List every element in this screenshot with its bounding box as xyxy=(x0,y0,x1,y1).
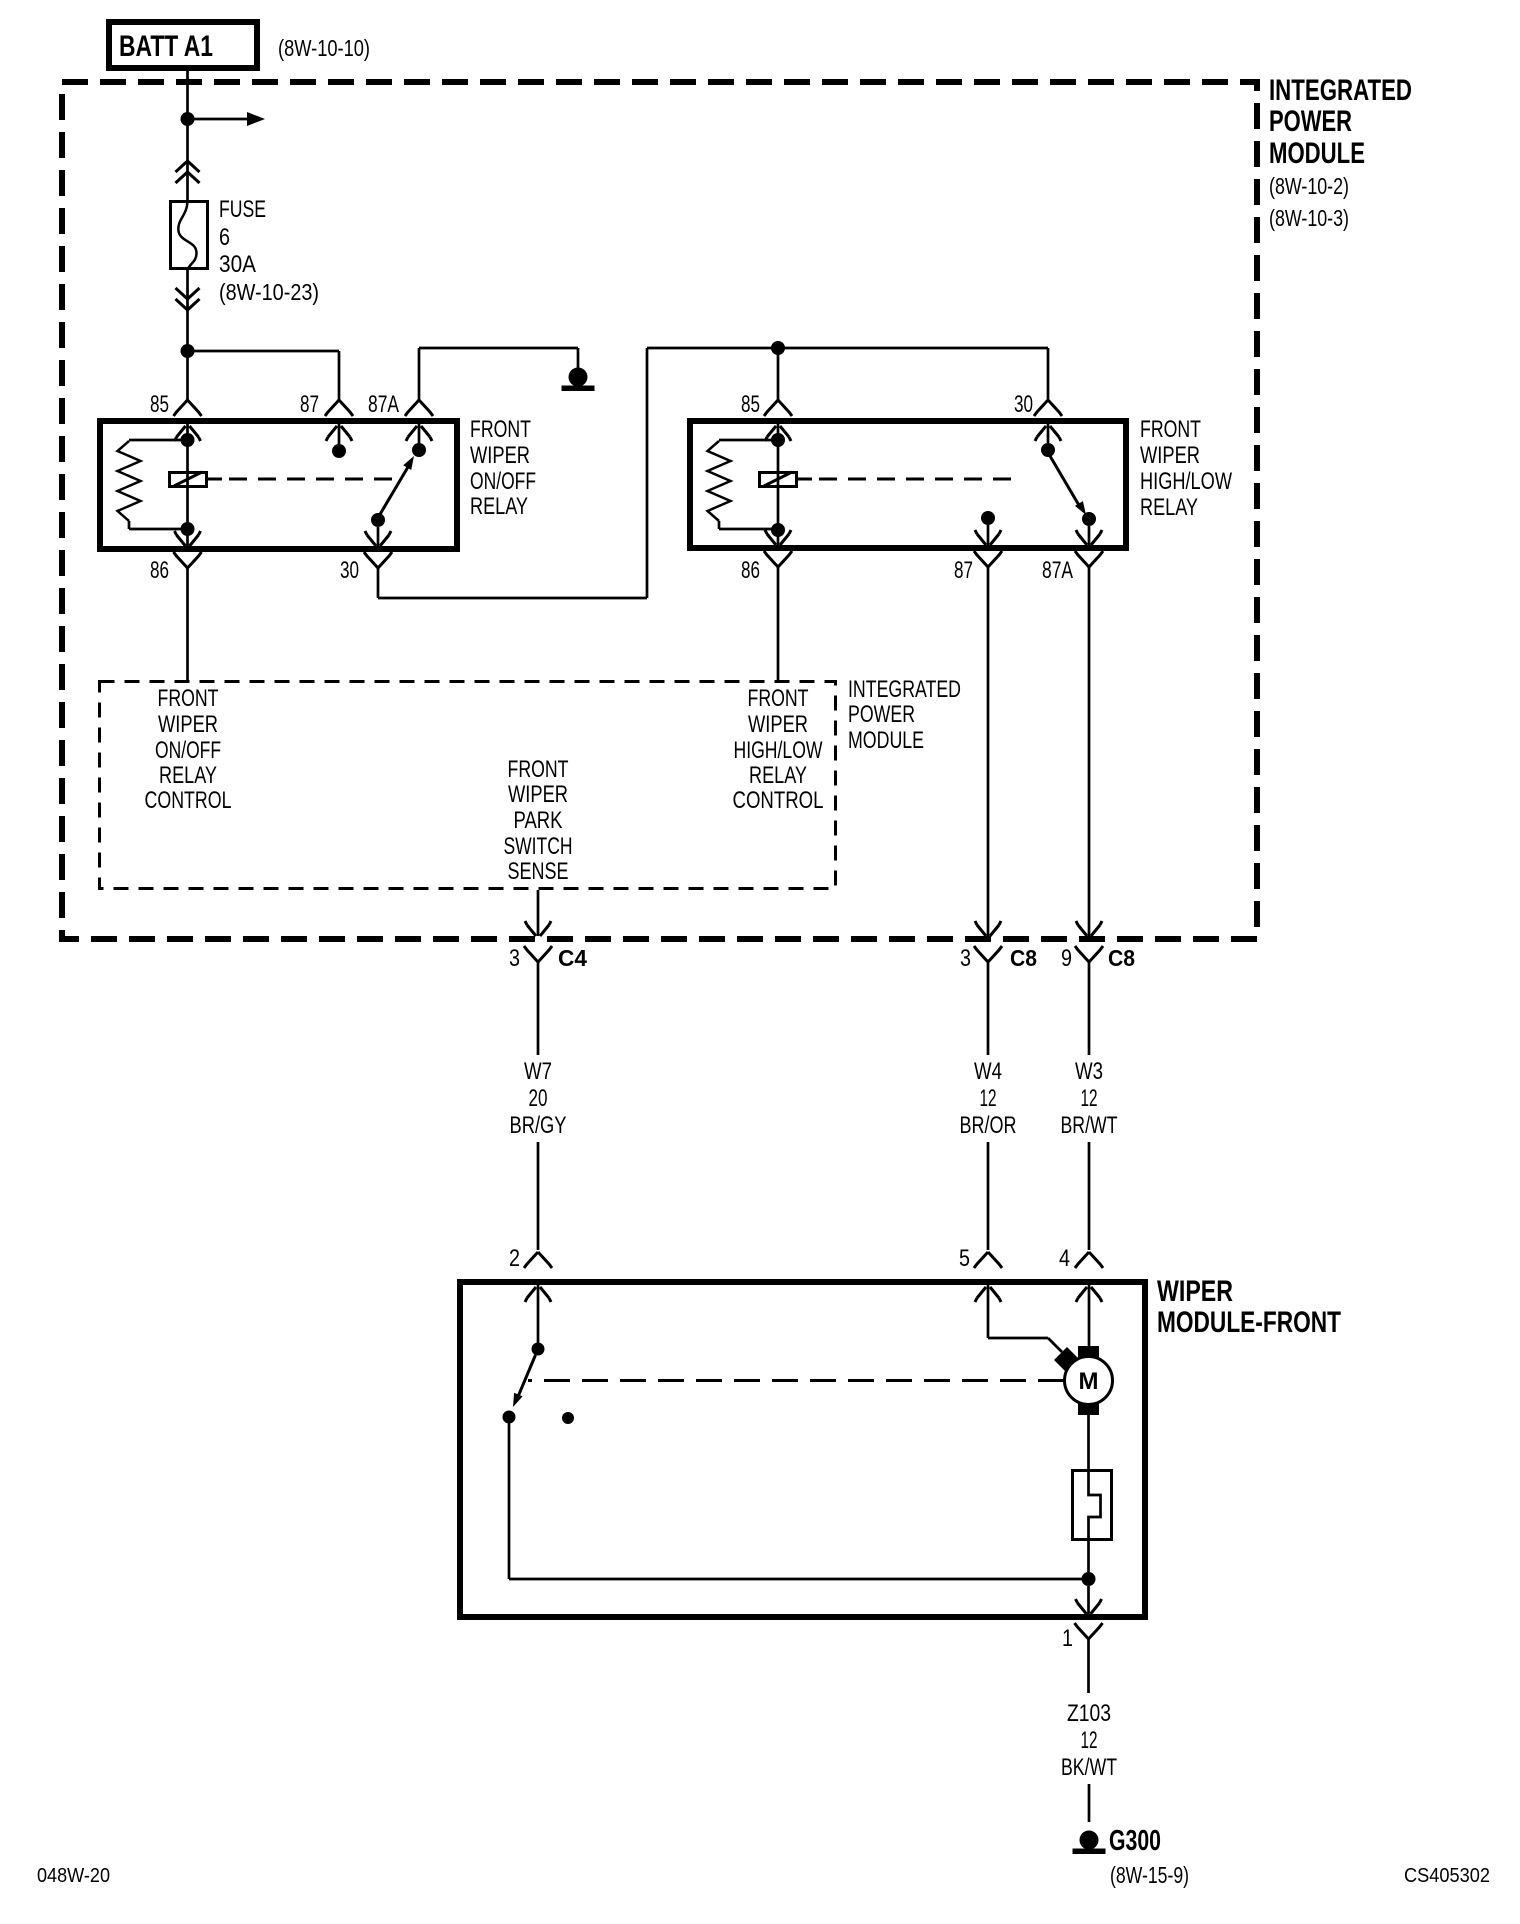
svg-text:2: 2 xyxy=(509,1245,520,1272)
svg-text:CONTROL: CONTROL xyxy=(733,787,824,814)
svg-text:048W-20: 048W-20 xyxy=(37,1865,110,1887)
svg-text:WIPER: WIPER xyxy=(470,442,530,469)
svg-text:W3: W3 xyxy=(1075,1058,1103,1085)
wire: relay1 pin 87A to ground splice xyxy=(418,348,421,400)
svg-text:FRONT: FRONT xyxy=(470,416,531,443)
svg-text:86: 86 xyxy=(150,557,169,584)
park switch xyxy=(1073,1471,1112,1540)
wire switch low contact to ground junction xyxy=(508,1423,511,1579)
svg-text:3: 3 xyxy=(960,945,971,972)
svg-text:CS405302: CS405302 xyxy=(1404,1865,1490,1887)
svg-text:(8W-10-3): (8W-10-3) xyxy=(1269,205,1349,231)
svg-text:FRONT: FRONT xyxy=(748,685,809,712)
svg-text:C8: C8 xyxy=(1108,945,1135,971)
switch contact high (open) xyxy=(562,1412,574,1424)
svg-text:RELAY: RELAY xyxy=(159,762,217,789)
pin 30 relay2 xyxy=(1034,400,1062,416)
svg-text:PARK: PARK xyxy=(514,807,563,834)
relay1 coil box xyxy=(170,473,207,487)
pin 5 wiper module xyxy=(974,1252,1002,1268)
relay K2 FRONT WIPER HIGH/LOW RELAY box xyxy=(690,421,1126,548)
pin 86 relay1 xyxy=(175,531,201,546)
wire relay1 86 to control box xyxy=(186,568,189,681)
wiper speed switch xyxy=(537,1284,540,1343)
relay1 actuating dashed link xyxy=(208,478,222,481)
svg-text:BK/WT: BK/WT xyxy=(1061,1754,1117,1781)
pin 87 relay2 xyxy=(975,530,1001,545)
svg-text:C8: C8 xyxy=(1010,945,1037,971)
svg-text:MODULE: MODULE xyxy=(848,727,924,754)
wire motor to park switch xyxy=(1087,1415,1090,1469)
relay2 node 85 xyxy=(771,433,785,447)
svg-text:Z103: Z103 xyxy=(1067,1700,1111,1727)
svg-text:87: 87 xyxy=(954,557,973,584)
wire: BATT A1 to fuse 6 xyxy=(186,71,189,200)
relay2 switch common 30 xyxy=(1047,424,1050,443)
wire: fuse to relay 1 pin 85 xyxy=(186,270,189,400)
pin 2 wiper module xyxy=(524,1252,552,1268)
connector C8 pin 9 xyxy=(1076,921,1102,936)
wire relay2 87 down xyxy=(987,567,990,936)
relay K1 FRONT WIPER ON/OFF RELAY box xyxy=(100,421,457,549)
svg-text:WIPER: WIPER xyxy=(158,711,218,738)
relay2 coil box xyxy=(760,473,797,487)
relay1 coil wire 85-86 xyxy=(186,423,189,547)
svg-text:POWER: POWER xyxy=(848,701,915,728)
relay2 actuating dashed link xyxy=(798,478,812,481)
svg-text:FUSE: FUSE xyxy=(219,196,266,223)
svg-text:85: 85 xyxy=(741,391,760,418)
svg-text:(8W-10-2): (8W-10-2) xyxy=(1269,173,1349,199)
svg-text:5: 5 xyxy=(959,1245,970,1272)
WIPER MODULE-FRONT box xyxy=(460,1282,1145,1617)
svg-text:1: 1 xyxy=(1062,1625,1073,1652)
svg-text:30: 30 xyxy=(340,557,359,584)
svg-text:86: 86 xyxy=(741,557,760,584)
svg-text:6: 6 xyxy=(219,224,230,251)
junction to relay2 85 xyxy=(771,341,785,355)
switch contact low xyxy=(503,1411,516,1424)
svg-text:30A: 30A xyxy=(219,251,256,278)
svg-text:FRONT: FRONT xyxy=(158,685,219,712)
wire pin5 to motor brush xyxy=(987,1284,990,1338)
svg-text:87A: 87A xyxy=(1042,557,1073,584)
battery feed B(+) box BATT A1 xyxy=(109,22,257,68)
connector C8 pin 3 xyxy=(975,921,1001,936)
ground G300 xyxy=(1080,1831,1099,1850)
svg-text:MODULE-FRONT: MODULE-FRONT xyxy=(1157,1306,1341,1339)
svg-text:12: 12 xyxy=(1081,1085,1098,1112)
wiper module ground junction xyxy=(1082,1572,1096,1586)
pin 1 wiper module xyxy=(1087,1586,1090,1614)
svg-text:SWITCH: SWITCH xyxy=(504,833,573,860)
svg-text:HIGH/LOW: HIGH/LOW xyxy=(734,737,823,764)
svg-text:BR/GY: BR/GY xyxy=(510,1112,567,1139)
svg-text:WIPER: WIPER xyxy=(748,711,808,738)
off-page double chevron below fuse xyxy=(176,288,200,299)
pin 87A relay1 xyxy=(405,400,433,416)
svg-text:(8W-15-9): (8W-15-9) xyxy=(1110,1862,1189,1888)
wire relay2 86 to control box xyxy=(777,567,780,681)
svg-text:FRONT: FRONT xyxy=(508,756,569,783)
svg-text:INTEGRATED: INTEGRATED xyxy=(848,676,961,703)
relay2 coil resistor xyxy=(719,439,778,442)
svg-text:WIPER: WIPER xyxy=(1140,442,1200,469)
wire pin4 to motor xyxy=(1088,1284,1091,1346)
IPM internal control dashed box xyxy=(100,682,836,889)
svg-text:BR/OR: BR/OR xyxy=(960,1112,1017,1139)
relay1 node 86 xyxy=(181,522,195,536)
switch pivot xyxy=(532,1343,545,1356)
fuse 6 30A xyxy=(171,202,208,269)
svg-text:POWER: POWER xyxy=(1269,105,1352,138)
svg-text:M: M xyxy=(1079,1368,1099,1395)
pin 86 relay2 xyxy=(765,530,791,545)
svg-text:ON/OFF: ON/OFF xyxy=(470,468,536,495)
pin 30 relay1 xyxy=(365,531,391,546)
wire: node to relay1 pin 87 xyxy=(188,350,340,353)
svg-text:WIPER: WIPER xyxy=(508,781,568,808)
pin 85 relay2 xyxy=(764,400,792,416)
svg-text:HIGH/LOW: HIGH/LOW xyxy=(1140,468,1232,495)
svg-text:SENSE: SENSE xyxy=(508,858,569,885)
motor terminal diamond xyxy=(1054,1347,1080,1373)
svg-text:9: 9 xyxy=(1061,945,1072,972)
svg-text:BR/WT: BR/WT xyxy=(1061,1112,1118,1139)
wire park switch to ground node xyxy=(1087,1541,1090,1572)
relay2 contact 87A xyxy=(1082,512,1096,526)
svg-text:RELAY: RELAY xyxy=(1140,494,1198,521)
relay1 node 85 xyxy=(181,433,195,447)
svg-text:ON/OFF: ON/OFF xyxy=(155,737,221,764)
wire: relay1 30 to relay2 feed xyxy=(377,568,380,598)
relay1 contact 87 xyxy=(338,423,341,444)
pin 87A relay2 xyxy=(1076,530,1102,545)
junction fuse output node xyxy=(181,344,195,358)
svg-text:G300: G300 xyxy=(1109,1825,1161,1857)
svg-text:12: 12 xyxy=(1081,1727,1098,1754)
svg-text:3: 3 xyxy=(509,945,520,972)
pin 85 relay1 xyxy=(174,400,202,416)
relay2 node 86 xyxy=(771,523,785,537)
svg-text:W4: W4 xyxy=(974,1058,1002,1085)
svg-text:BATT A1: BATT A1 xyxy=(119,30,213,63)
svg-text:MODULE: MODULE xyxy=(1269,137,1365,170)
svg-text:87: 87 xyxy=(300,391,319,418)
svg-text:CONTROL: CONTROL xyxy=(145,787,232,814)
pin 87 relay1 xyxy=(325,400,353,416)
svg-text:FRONT: FRONT xyxy=(1140,416,1201,443)
wiper switch dashed link to motor xyxy=(528,1379,1064,1382)
svg-text:30: 30 xyxy=(1014,391,1033,418)
svg-text:87A: 87A xyxy=(368,391,399,418)
wiper motor M xyxy=(1078,1346,1099,1358)
relay1 contact 87A xyxy=(418,423,421,443)
pin 4 wiper module xyxy=(1075,1252,1103,1268)
ground symbol at relay1 87A xyxy=(569,368,588,387)
svg-text:(8W-10-23): (8W-10-23) xyxy=(219,279,319,305)
svg-text:W7: W7 xyxy=(524,1058,552,1085)
connector C4 pin 3 xyxy=(537,890,540,936)
off-page double chevron above fuse xyxy=(176,161,200,172)
svg-text:20: 20 xyxy=(529,1085,548,1112)
svg-text:(8W-10-10): (8W-10-10) xyxy=(278,35,370,61)
integrated power module dashed boundary xyxy=(62,82,1257,939)
svg-text:4: 4 xyxy=(1059,1245,1070,1272)
svg-text:12: 12 xyxy=(980,1085,997,1112)
svg-text:WIPER: WIPER xyxy=(1157,1275,1233,1308)
relay1 coil resistor xyxy=(129,439,188,442)
off-page arrow to other circuits xyxy=(194,118,247,121)
svg-text:RELAY: RELAY xyxy=(749,762,807,789)
relay2 contact 87 xyxy=(981,511,995,525)
svg-text:INTEGRATED: INTEGRATED xyxy=(1269,74,1412,107)
wire relay2 87A down xyxy=(1088,567,1091,936)
relay1 switch armature common 30 xyxy=(371,513,385,527)
junction from BATT A1 feed xyxy=(181,112,195,126)
svg-text:85: 85 xyxy=(150,391,169,418)
svg-text:RELAY: RELAY xyxy=(470,493,528,520)
svg-text:C4: C4 xyxy=(558,945,587,971)
relay2 coil wire 85-86 xyxy=(777,423,780,546)
